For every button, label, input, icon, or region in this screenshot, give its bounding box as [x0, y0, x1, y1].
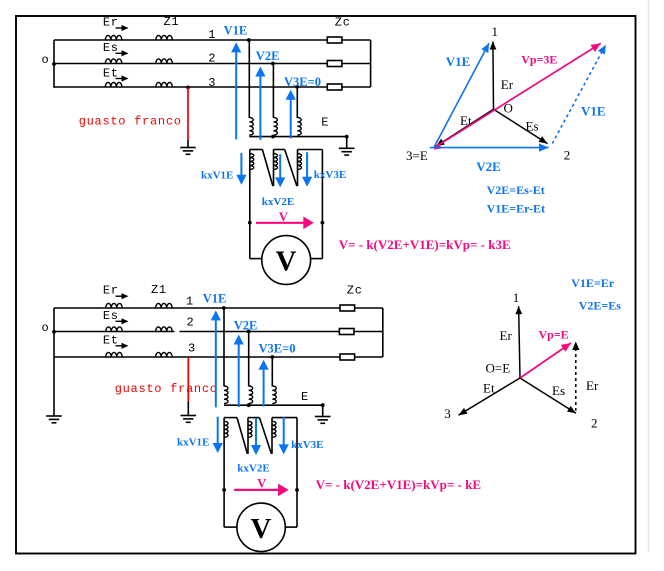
- svg-text:V1E: V1E: [446, 54, 471, 69]
- bottom circuit: voltmeter loop left node dot: [222, 488, 226, 492]
- svg-text:V: V: [276, 246, 297, 278]
- bottom circuit: left bus wire: [53, 308, 55, 416]
- bottom circuit: Z1 coil phase 2: [156, 327, 173, 332]
- bottom circuit: kxV3E arrow (blue): [283, 417, 285, 446]
- bottom circuit: node o junction dot: [52, 330, 56, 334]
- svg-text:3=E: 3=E: [406, 148, 428, 163]
- bottom circuit: node dot phase 3: [270, 355, 274, 359]
- bottom phasor: Er vector: [519, 306, 520, 378]
- svg-text:E: E: [321, 115, 329, 129]
- top circuit: fault earth symbol: [180, 147, 196, 149]
- top circuit: earth symbol at E: [339, 147, 355, 149]
- top circuit: voltmeter left lead: [250, 258, 262, 260]
- top circuit: VT primary coil 2: [273, 118, 277, 136]
- top circuit: source coil phase 3: [105, 82, 122, 87]
- top phasor: V1E vector (blue): [434, 43, 489, 147]
- top circuit: Es direction arrow: [116, 52, 124, 54]
- svg-text:V: V: [251, 513, 272, 545]
- bottom circuit: star bus junction dot: [247, 403, 251, 407]
- svg-text:V2E: V2E: [234, 319, 258, 333]
- svg-text:V1E: V1E: [581, 103, 606, 118]
- svg-text:o: o: [42, 53, 50, 67]
- top circuit: secondary right wire: [321, 150, 323, 259]
- bottom circuit: phase 1 wire right segment: [355, 307, 383, 309]
- svg-text:3: 3: [208, 76, 216, 90]
- svg-text:3: 3: [444, 406, 451, 421]
- top phasor: V2E vector (blue): [430, 147, 549, 149]
- svg-text:1: 1: [186, 295, 194, 309]
- svg-text:Er: Er: [501, 77, 514, 92]
- top circuit: phase 2 wire: [54, 63, 327, 65]
- top circuit: VT primary coil 1: [249, 118, 253, 136]
- bottom circuit: source coil phase 3: [106, 352, 123, 357]
- bottom circuit: Z1 coil phase 3: [156, 352, 173, 357]
- bottom circuit: VT primary coil 2: [249, 386, 253, 404]
- top circuit: phase 3 wire right segment: [342, 86, 371, 88]
- top circuit: Z1 coil phase 2: [156, 59, 173, 64]
- top circuit: VT primary coil 3: [297, 118, 301, 136]
- bottom circuit: VT primary wire from phase 3: [271, 357, 273, 386]
- top circuit: Z1 coil phase 1: [156, 35, 173, 40]
- bottom circuit: source coil phase 2: [106, 327, 123, 332]
- top circuit: kxV3E arrow (blue): [306, 152, 308, 179]
- svg-text:V2E: V2E: [476, 159, 501, 174]
- bottom circuit: Zc resistor phase 2: [339, 329, 354, 335]
- top circuit: fault node dot: [186, 86, 190, 90]
- bottom circuit: VT primary wire from phase 2: [248, 332, 250, 387]
- bottom circuit: phase 2 wire: [54, 331, 175, 333]
- top circuit: secondary top bar 2: [274, 149, 285, 151]
- svg-text:V1E=Er: V1E=Er: [571, 276, 615, 290]
- bottom circuit: secondary wire 2: [247, 418, 249, 454]
- svg-text:kxV3E: kxV3E: [291, 439, 323, 451]
- top phasor: dashed V1E vector (blue): [552, 48, 604, 144]
- svg-text:2: 2: [187, 315, 195, 329]
- bottom circuit: Er direction arrow: [116, 295, 124, 297]
- bottom circuit: voltmeter loop right node dot: [295, 488, 299, 492]
- bottom circuit: right bus wire: [382, 308, 384, 357]
- svg-text:Zc: Zc: [335, 16, 351, 30]
- top circuit: V2E arrow (blue): [259, 75, 261, 140]
- svg-text:Zc: Zc: [347, 284, 363, 298]
- bottom circuit: Es direction arrow: [116, 320, 124, 322]
- top circuit: node o junction dot: [52, 62, 56, 66]
- top circuit: node dot phase 2: [271, 62, 275, 66]
- bottom circuit: secondary right wire: [296, 418, 298, 527]
- svg-text:1: 1: [513, 290, 520, 305]
- top circuit: fault earth stem: [187, 140, 189, 148]
- top circuit: earth stem at E: [346, 137, 348, 149]
- svg-text:1: 1: [491, 24, 498, 39]
- top circuit: VT primary wire from phase 1: [248, 40, 250, 118]
- bottom circuit: secondary left wire: [223, 418, 225, 527]
- svg-text:E: E: [301, 390, 309, 404]
- bottom phasor: Es vector: [520, 378, 576, 413]
- bottom circuit: phase 2 wire segment b: [180, 331, 340, 333]
- top circuit: secondary coil 2: [274, 154, 278, 170]
- top phasor: Es vector: [494, 109, 548, 143]
- bottom circuit: VT primary coil 3: [272, 386, 276, 404]
- top circuit: secondary left wire: [249, 150, 251, 259]
- svg-text:o: o: [42, 321, 50, 335]
- top circuit: secondary diagonal 1: [262, 150, 273, 187]
- bottom phasor: Vp=E vector (pink): [520, 343, 571, 378]
- bottom circuit: earth stem at E: [322, 405, 324, 416]
- svg-text:V2E=Es-Et: V2E=Es-Et: [487, 183, 545, 197]
- top circuit: secondary diagonal 2: [285, 150, 297, 187]
- top circuit: Er direction arrow: [116, 27, 124, 29]
- svg-text:2: 2: [591, 416, 598, 431]
- top circuit: fault wire (red): [187, 87, 189, 140]
- svg-text:V3E=0: V3E=0: [259, 341, 296, 355]
- svg-text:Er: Er: [500, 328, 513, 343]
- bottom circuit: secondary top bar 2: [248, 417, 260, 419]
- top phasor: small pink tail head: [434, 143, 442, 150]
- bottom circuit: voltmeter left lead: [224, 526, 238, 528]
- top phasor: Et vector: [436, 109, 494, 146]
- bottom circuit: V measure arrow (pink): [234, 489, 280, 491]
- top circuit: secondary coil 3: [298, 154, 302, 170]
- top circuit: voltmeter U1 circle: [262, 236, 311, 285]
- bottom circuit: voltmeter right lead: [285, 526, 297, 528]
- bottom circuit: kxV1E arrow (blue): [217, 417, 219, 445]
- bottom circuit: source coil phase 1: [106, 303, 123, 308]
- top circuit: VT primary wire from phase 2: [272, 64, 274, 119]
- bottom phasor: dashed Er arrowhead: [572, 342, 579, 351]
- svg-text:Z1: Z1: [151, 283, 167, 297]
- svg-text:Vp=3E: Vp=3E: [521, 52, 557, 66]
- bottom circuit: V1E arrow (blue): [215, 318, 217, 407]
- svg-text:2: 2: [564, 148, 571, 163]
- svg-text:V3E=0: V3E=0: [284, 75, 321, 89]
- svg-text:1: 1: [208, 28, 216, 42]
- top circuit: phase 3 wire: [54, 86, 327, 88]
- bottom phasor: Et vector: [459, 378, 521, 415]
- svg-text:V: V: [257, 477, 266, 491]
- bottom circuit: V2E arrow (blue): [238, 343, 240, 408]
- top circuit: left bus wire: [53, 40, 55, 88]
- page edge line: [648, 0, 650, 552]
- top circuit: right bus wire: [370, 40, 372, 87]
- bottom circuit: VT primary coil 1: [224, 386, 228, 404]
- top circuit: Et direction arrow: [116, 78, 124, 80]
- bottom circuit: VT primary star bus: [224, 404, 323, 406]
- svg-text:2: 2: [208, 51, 216, 65]
- svg-text:kxV2E: kxV2E: [237, 463, 269, 475]
- top circuit: Zc resistor phase 3: [327, 84, 342, 90]
- bottom circuit: left bus earth symbol: [46, 415, 62, 417]
- top circuit: secondary coil 1: [250, 154, 254, 170]
- top circuit: kxV2E arrow (blue): [279, 154, 281, 179]
- svg-text:V1E: V1E: [224, 23, 248, 37]
- svg-text:O=E: O=E: [486, 360, 511, 375]
- bottom circuit: phase 3 wire: [54, 356, 340, 358]
- svg-text:V2E: V2E: [256, 49, 280, 63]
- top circuit: secondary wire 3: [297, 150, 299, 187]
- svg-text:guasto franco: guasto franco: [115, 382, 218, 396]
- bottom circuit: Z1 coil phase 1: [156, 303, 173, 308]
- bottom circuit: voltmeter U2 circle: [237, 503, 285, 551]
- bottom circuit: fault wire (red): [187, 357, 189, 402]
- svg-text:guasto franco: guasto franco: [79, 115, 182, 129]
- bottom circuit: secondary coil 1: [224, 421, 228, 437]
- svg-text:kxV1E: kxV1E: [201, 170, 233, 182]
- top circuit: source coil phase 1: [105, 35, 122, 40]
- bottom circuit: Zc resistor phase 1: [340, 305, 355, 311]
- bottom circuit: Zc resistor phase 3: [340, 354, 355, 360]
- svg-text:V= - k(V2E+V1E)=kVp= - kE: V= - k(V2E+V1E)=kVp= - kE: [316, 477, 481, 492]
- svg-text:V2E=Es: V2E=Es: [579, 299, 622, 313]
- top circuit: Zc resistor phase 2: [327, 61, 342, 67]
- top circuit: secondary top bar 1: [250, 149, 263, 151]
- top circuit: secondary wire 2: [273, 150, 275, 187]
- svg-text:Es: Es: [552, 383, 565, 398]
- bottom circuit: fault earth symbol: [181, 415, 197, 417]
- top circuit: V3E arrow (blue): [290, 98, 292, 139]
- svg-text:Et: Et: [483, 380, 495, 395]
- svg-text:Vp=E: Vp=E: [539, 327, 569, 341]
- top circuit: star bus junction dot: [271, 135, 275, 139]
- svg-text:Es: Es: [526, 119, 539, 134]
- bottom circuit: secondary coil 3: [272, 421, 276, 437]
- bottom circuit: fault earth stem: [187, 402, 189, 416]
- bottom circuit: secondary top bar 3: [272, 417, 297, 419]
- bottom circuit: V3E arrow (blue): [263, 368, 265, 407]
- svg-text:V1E=Er-Et: V1E=Er-Et: [487, 201, 545, 215]
- bottom circuit: VT primary wire from phase 1: [223, 308, 225, 386]
- svg-text:kxV1E: kxV1E: [177, 436, 209, 448]
- bottom circuit: Et direction arrow: [116, 345, 124, 347]
- top circuit: VT primary star bus: [249, 136, 346, 138]
- svg-text:kxV3E: kxV3E: [314, 169, 346, 181]
- top circuit: voltmeter loop left node dot: [248, 221, 252, 225]
- top circuit: source coil phase 2: [105, 59, 122, 64]
- top circuit: voltmeter loop right node dot: [321, 221, 325, 225]
- svg-text:V1E: V1E: [203, 292, 227, 306]
- top circuit: secondary top bar 3: [298, 149, 323, 151]
- bottom circuit: node dot phase 1: [222, 306, 226, 310]
- bottom circuit: node E dot: [321, 403, 325, 407]
- top circuit: node E dot: [345, 135, 349, 139]
- bottom circuit: node dot phase 2: [247, 330, 251, 334]
- top circuit: phase 1 wire: [54, 39, 327, 41]
- bottom circuit: phase 2 wire right segment: [354, 331, 383, 333]
- svg-text:3: 3: [188, 342, 196, 356]
- bottom circuit: earth symbol at E: [315, 416, 331, 418]
- top circuit: voltmeter right lead: [311, 258, 323, 260]
- top circuit: V measure arrow (pink): [256, 222, 305, 224]
- bottom circuit: kxV2E arrow (blue): [255, 418, 257, 447]
- top circuit: phase 2 wire right segment: [342, 63, 371, 65]
- top circuit: Z1 coil phase 3: [156, 82, 173, 87]
- top circuit: VT primary wire from phase 3: [296, 87, 298, 118]
- bottom phasor: dashed Er line: [575, 348, 577, 411]
- top circuit: node dot phase 3: [295, 85, 299, 89]
- bottom circuit: secondary wire 3: [271, 418, 273, 454]
- bottom circuit: secondary top bar 1: [224, 417, 237, 419]
- top circuit: Zc resistor phase 1: [327, 37, 342, 43]
- svg-text:V: V: [279, 210, 288, 224]
- bottom circuit: phase 3 wire right segment: [355, 356, 383, 358]
- bottom circuit: phase 1 wire: [54, 307, 340, 309]
- top circuit: kxV1E arrow (blue): [240, 153, 242, 177]
- svg-text:kxV2E: kxV2E: [262, 196, 294, 208]
- bottom circuit: secondary diagonal 1: [237, 418, 247, 454]
- svg-text:V= - k(V2E+V1E)=kVp= - k3E: V= - k(V2E+V1E)=kVp= - k3E: [339, 237, 511, 252]
- top phasor: Er vector: [492, 42, 495, 110]
- top circuit: phase 1 wire right segment: [342, 39, 371, 41]
- svg-text:Er: Er: [586, 378, 599, 393]
- bottom circuit: secondary diagonal 2: [260, 418, 272, 454]
- top phasor: Vp=3E vector (pink): [434, 43, 601, 148]
- svg-text:Z1: Z1: [164, 15, 180, 29]
- top circuit: V1E arrow (blue): [235, 50, 237, 139]
- top circuit: node dot phase 1: [247, 38, 251, 42]
- bottom circuit: secondary coil 2: [248, 421, 252, 437]
